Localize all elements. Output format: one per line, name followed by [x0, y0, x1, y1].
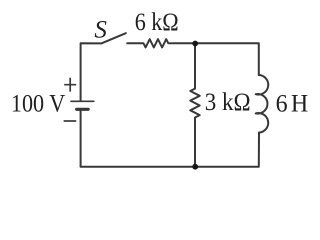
svg-text:3 kΩ: 3 kΩ: [205, 89, 251, 116]
svg-text:100 V: 100 V: [11, 90, 65, 118]
svg-text:6 H: 6 H: [276, 90, 309, 118]
svg-text:6 kΩ: 6 kΩ: [135, 9, 179, 37]
svg-text:S: S: [94, 16, 107, 43]
